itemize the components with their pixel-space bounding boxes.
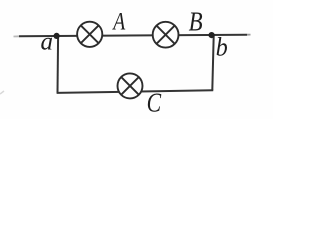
svg-text:b: b [216, 32, 228, 61]
wire: left vertical wire from node a down to bottom branch [57, 36, 60, 93]
lamp B (circle with X) [153, 22, 179, 48]
node b (junction dot) [209, 32, 215, 38]
lamp C (circle with X) [118, 73, 143, 98]
node a (junction dot) [54, 33, 60, 39]
wire: right vertical wire from node b down to bottom branch [212, 35, 213, 90]
wire: faded left tip of top wire [14, 35, 20, 37]
wire: bottom horizontal wire through lamp C [57, 90, 214, 93]
svg-text:C: C [147, 88, 162, 118]
wire: top horizontal wire from left edge to right edge through nodes a and b [19, 35, 247, 37]
faint scan speck at left edge [0, 91, 4, 94]
lamp A (circle with X) [77, 22, 102, 47]
svg-text:B: B [189, 7, 203, 37]
wire: faded right tip of top wire [247, 34, 251, 36]
svg-text:a: a [41, 29, 54, 56]
svg-text:A: A [112, 8, 126, 35]
